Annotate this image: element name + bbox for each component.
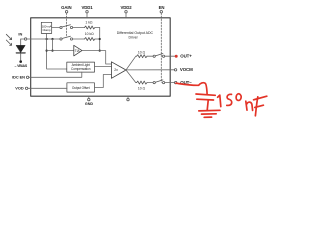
VDD1 stub wire [86, 13, 88, 18]
red annotation wire from OUT- [176, 83, 207, 94]
right feedback bus wire [99, 28, 101, 51]
pin VOD terminal [25, 87, 27, 89]
TIA input bus wire [52, 39, 54, 51]
wire R2 to right feedback bus [95, 38, 100, 40]
wire to TIA input [47, 50, 74, 52]
red ground symbol [199, 110, 220, 117]
resistor R2 10 kOhm [85, 38, 95, 41]
svg-text:VOCM: VOCM [180, 67, 193, 72]
pin VOCM terminal [174, 69, 176, 71]
wire R1 to right feedback bus [95, 27, 100, 29]
red capacitor C1 top plate [196, 94, 215, 95]
wire IN input row (node IN) [21, 38, 60, 40]
junction dot bus/R2 [99, 38, 101, 40]
TIA output wire [82, 51, 111, 64]
GAIN control dashed wire [66, 13, 68, 37]
OUT+ stub wire [171, 55, 175, 57]
switch S3 (EN, OUT+) [153, 55, 155, 57]
pin OUT- terminal [175, 81, 177, 83]
svg-text:Driver: Driver [129, 36, 139, 40]
main IC boundary box [31, 18, 171, 96]
photodiode light arrows [6, 34, 11, 45]
svg-text:10 Ω: 10 Ω [138, 50, 146, 54]
svg-text:IDC EN: IDC EN [12, 75, 25, 80]
OUT- stub wire [171, 82, 175, 84]
svg-text:10 Ω: 10 Ω [138, 86, 146, 90]
bottom pin 2 terminal [127, 98, 129, 100]
red wire capacitor to ground [207, 100, 208, 110]
100-mA clamp block U2 [41, 22, 51, 33]
pin GAIN terminal [65, 11, 67, 13]
svg-text:Output Offset: Output Offset [72, 86, 90, 90]
bottom pin 2 stub wire [127, 96, 129, 98]
resistor R4 10 Ohm [137, 81, 147, 84]
OUT- diagonal wire from driver [126, 70, 137, 83]
output offset wire to driver [95, 75, 112, 88]
wire row1 clamp to switch [52, 27, 60, 29]
red capacitor C1 bottom plate [197, 98, 214, 101]
junction dot node IN / TIA bus [51, 38, 53, 40]
resistor R3 10 Ohm [137, 55, 147, 58]
OUT+ diagonal wire from driver [126, 56, 137, 70]
wire R4 to switch S4 [147, 82, 153, 84]
wire R3 to switch S3 [147, 55, 153, 57]
svg-text:GND: GND [85, 102, 94, 106]
IDC EN wire [29, 72, 82, 77]
pin VDD1 terminal [86, 11, 88, 13]
wire switch S2 to R2 [73, 38, 85, 40]
pin IN terminal [24, 38, 26, 40]
VOD wire [28, 87, 67, 89]
clamp/ALC vertical wire (node A) [47, 33, 67, 69]
svg-text:– VBIAS: – VBIAS [15, 64, 28, 68]
pin VDD2 terminal [125, 11, 127, 13]
wire S3 to OUT+ pin [165, 55, 171, 57]
svg-text:Compensation: Compensation [71, 67, 91, 71]
VDD2 stub wire [125, 13, 127, 18]
wire switch S1 to R1 [73, 27, 85, 29]
svg-text:GAIN: GAIN [61, 5, 71, 10]
VOCM wire from driver apex [126, 69, 170, 71]
ALC output wire to driver [95, 66, 112, 68]
svg-text:OUT+: OUT+ [180, 53, 192, 58]
pin GND stub wire [88, 96, 90, 98]
pin EN terminal [160, 11, 162, 13]
svg-text:VOD: VOD [15, 86, 24, 91]
VBIAS node dot [19, 60, 22, 63]
switch S2 (10 kOhm gain select) [60, 38, 62, 40]
ambient light compensation block U4 [67, 62, 95, 72]
resistor R1 1 kOhm [85, 26, 95, 29]
op-amp TIA U3 [74, 45, 82, 56]
svg-text:1 kΩ: 1 kΩ [85, 20, 93, 24]
svg-text:VDD1: VDD1 [81, 5, 93, 10]
svg-text:TIA: TIA [75, 49, 81, 53]
switch S1 (1 kOhm gain select) [60, 26, 62, 28]
svg-text:IN: IN [18, 32, 22, 37]
junction dot node A / TIA input [46, 50, 48, 52]
junction dot node IN / ALC tap [46, 38, 48, 40]
op-amp differential driver U6 (2x) [111, 62, 126, 79]
svg-text:EN: EN [159, 5, 165, 10]
wire S4 to OUT- pin [165, 82, 171, 84]
svg-text:2x: 2x [114, 68, 118, 72]
svg-text:Differential Output ADC: Differential Output ADC [117, 31, 154, 35]
svg-text:Clamp: Clamp [43, 28, 51, 32]
junction dot bus/TIA input wire [51, 50, 53, 52]
pin GND terminal [88, 98, 90, 100]
svg-text:10 kΩ: 10 kΩ [85, 32, 94, 36]
switch S4 (EN, OUT-) [153, 82, 155, 84]
photodiode D1 [20, 39, 22, 45]
red handwritten label 150nF [218, 94, 267, 116]
pin OUT+ red probe dot [175, 55, 178, 58]
output offset block U5 [67, 83, 95, 92]
VOCM stub wire [171, 69, 175, 71]
pin IDC EN terminal [26, 76, 28, 78]
junction dot bus/TIA output [99, 50, 101, 52]
EN control dashed wire [160, 13, 162, 82]
svg-text:VDD2: VDD2 [120, 5, 132, 10]
